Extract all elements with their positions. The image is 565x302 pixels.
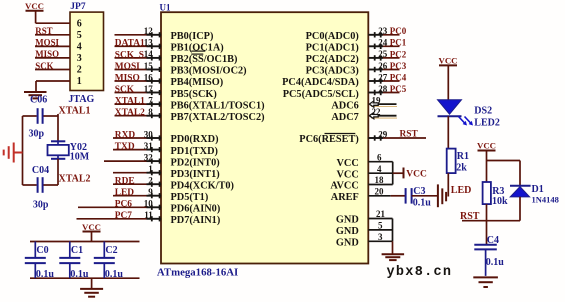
svg-text:PD7(AIN1): PD7(AIN1) (171, 215, 221, 226)
svg-text:PC0: PC0 (390, 26, 407, 36)
svg-text:0.1u: 0.1u (486, 257, 505, 268)
svg-text:PB6(XTAL1/TOSC1): PB6(XTAL1/TOSC1) (171, 100, 265, 111)
svg-text:C4: C4 (487, 235, 499, 246)
svg-text:1: 1 (77, 76, 82, 87)
svg-text:AREF: AREF (331, 192, 359, 203)
svg-text:1: 1 (148, 164, 153, 174)
svg-text:29: 29 (378, 130, 388, 140)
svg-text:PB0(ICP): PB0(ICP) (171, 31, 214, 42)
svg-text:PC5: PC5 (390, 84, 407, 94)
svg-text:30p: 30p (29, 128, 45, 139)
svg-text:PC4: PC4 (390, 72, 407, 82)
svg-text:GND: GND (336, 226, 359, 237)
svg-text:RXD: RXD (115, 130, 136, 140)
svg-text:LED: LED (115, 188, 135, 198)
svg-text:JP7: JP7 (70, 2, 86, 12)
svg-text:11: 11 (144, 210, 153, 220)
svg-text:R1: R1 (457, 151, 469, 162)
svg-text:DS2: DS2 (474, 106, 492, 117)
svg-text:ADC6: ADC6 (331, 100, 358, 111)
svg-text:PD4(XCK/T0): PD4(XCK/T0) (171, 180, 235, 191)
svg-text:27: 27 (378, 72, 388, 82)
svg-text:4: 4 (377, 164, 382, 174)
svg-text:ybx8.cn: ybx8.cn (387, 265, 453, 280)
svg-text:PD5(T1): PD5(T1) (171, 192, 209, 203)
svg-text:XTAL2: XTAL2 (115, 108, 145, 118)
svg-text:PB7(XTAL2/TOSC2): PB7(XTAL2/TOSC2) (171, 112, 265, 123)
svg-text:PB2(SS/OC1B): PB2(SS/OC1B) (171, 54, 238, 65)
svg-text:3: 3 (378, 232, 383, 242)
svg-text:20: 20 (375, 186, 385, 196)
svg-text:8: 8 (148, 107, 153, 117)
svg-text:VCC: VCC (477, 140, 496, 150)
svg-text:PB4(MISO): PB4(MISO) (171, 77, 224, 88)
svg-text:PD1(TXD): PD1(TXD) (171, 146, 218, 157)
svg-text:17: 17 (144, 84, 154, 94)
svg-text:VCC: VCC (336, 158, 358, 169)
svg-text:PC2: PC2 (390, 49, 407, 59)
svg-text:32: 32 (144, 152, 154, 162)
svg-text:PC1: PC1 (390, 38, 407, 48)
svg-text:VCC: VCC (82, 222, 101, 232)
svg-text:7: 7 (148, 95, 153, 105)
svg-text:14: 14 (144, 49, 154, 59)
svg-text:28: 28 (378, 84, 388, 94)
svg-text:C06: C06 (30, 95, 47, 106)
svg-text:D1: D1 (532, 184, 544, 195)
svg-text:23: 23 (378, 26, 388, 36)
svg-text:2: 2 (77, 65, 82, 76)
svg-text:C2: C2 (105, 245, 117, 256)
svg-text:PC1(ADC1): PC1(ADC1) (306, 43, 359, 54)
svg-text:13: 13 (144, 38, 154, 48)
svg-text:VCC: VCC (438, 56, 457, 66)
svg-text:21: 21 (376, 209, 386, 219)
svg-text:RST: RST (460, 211, 480, 222)
svg-text:PC6(RESET): PC6(RESET) (299, 134, 359, 145)
svg-text:18: 18 (375, 175, 385, 185)
svg-text:0.1u: 0.1u (105, 269, 124, 280)
svg-text:PD0(RXD): PD0(RXD) (171, 134, 219, 145)
svg-text:10: 10 (144, 199, 154, 209)
svg-text:SCK_S: SCK_S (115, 50, 144, 60)
svg-text:30p: 30p (33, 199, 49, 210)
svg-text:PD3(INT1): PD3(INT1) (171, 169, 220, 180)
svg-text:MISO: MISO (115, 73, 140, 83)
svg-text:PC2(ADC2): PC2(ADC2) (306, 54, 359, 65)
svg-text:XTAL1: XTAL1 (115, 97, 145, 107)
svg-text:26: 26 (378, 61, 388, 71)
svg-text:LED: LED (451, 185, 472, 196)
svg-text:SCK: SCK (115, 85, 135, 95)
svg-text:5: 5 (378, 221, 383, 231)
svg-text:PB5(SCK): PB5(SCK) (171, 89, 217, 100)
svg-text:PC6: PC6 (115, 200, 132, 210)
svg-text:1N4148: 1N4148 (532, 194, 559, 204)
svg-text:30: 30 (144, 129, 154, 139)
svg-text:19: 19 (372, 95, 382, 105)
svg-text:25: 25 (378, 49, 388, 59)
svg-text:0.1u: 0.1u (70, 269, 89, 280)
svg-text:6: 6 (77, 18, 82, 29)
svg-text:10k: 10k (492, 196, 508, 207)
svg-text:PC3(ADC3): PC3(ADC3) (306, 66, 359, 77)
svg-text:9: 9 (148, 187, 153, 197)
svg-text:VCC: VCC (406, 169, 427, 179)
svg-text:AVCC: AVCC (330, 181, 358, 192)
svg-text:2k: 2k (456, 163, 467, 174)
svg-text:GND: GND (336, 215, 359, 226)
svg-text:10M: 10M (70, 152, 90, 163)
svg-text:0.1u: 0.1u (413, 197, 432, 208)
svg-text:16: 16 (144, 72, 154, 82)
svg-text:ATmega168-16AI: ATmega168-16AI (157, 267, 238, 279)
svg-text:VCC: VCC (25, 1, 44, 11)
svg-text:ADC7: ADC7 (331, 112, 358, 123)
svg-text:U1: U1 (160, 2, 171, 12)
svg-text:24: 24 (378, 38, 388, 48)
svg-text:PD6(AIN0): PD6(AIN0) (171, 204, 221, 215)
svg-text:PC0(ADC0): PC0(ADC0) (306, 31, 359, 42)
svg-text:5: 5 (77, 30, 82, 41)
svg-text:PC3: PC3 (390, 61, 407, 71)
svg-text:GND: GND (336, 238, 359, 249)
svg-text:22: 22 (372, 107, 382, 117)
svg-text:PB3(MOSI/OC2): PB3(MOSI/OC2) (171, 66, 247, 77)
svg-text:2: 2 (148, 176, 153, 186)
svg-text:VCC: VCC (336, 169, 358, 180)
svg-text:PC4(ADC4/SDA): PC4(ADC4/SDA) (282, 77, 359, 88)
svg-text:C0: C0 (36, 245, 48, 256)
svg-text:C1: C1 (71, 245, 83, 256)
svg-text:6: 6 (377, 152, 382, 162)
svg-text:PB1(OC1A): PB1(OC1A) (171, 43, 224, 54)
svg-text:3: 3 (77, 53, 82, 64)
svg-text:DATA1: DATA1 (115, 39, 145, 49)
svg-text:RST: RST (400, 130, 419, 140)
svg-text:XTAL2: XTAL2 (59, 173, 91, 184)
svg-text:C04: C04 (32, 165, 49, 176)
svg-text:PD2(INT0): PD2(INT0) (171, 157, 220, 168)
svg-text:PC7: PC7 (115, 211, 132, 221)
svg-text:RDE: RDE (115, 177, 135, 187)
svg-text:JTAG: JTAG (68, 94, 94, 105)
svg-text:31: 31 (144, 141, 154, 151)
svg-text:TXD: TXD (115, 142, 135, 152)
svg-text:XTAL1: XTAL1 (59, 105, 91, 116)
svg-text:PC5(ADC5/SCL): PC5(ADC5/SCL) (283, 89, 359, 100)
svg-text:12: 12 (144, 26, 154, 36)
svg-text:0.1u: 0.1u (36, 269, 55, 280)
svg-text:4: 4 (77, 42, 82, 53)
svg-text:15: 15 (144, 61, 154, 71)
svg-text:MOSI: MOSI (115, 62, 140, 72)
svg-text:LED2: LED2 (474, 118, 500, 129)
